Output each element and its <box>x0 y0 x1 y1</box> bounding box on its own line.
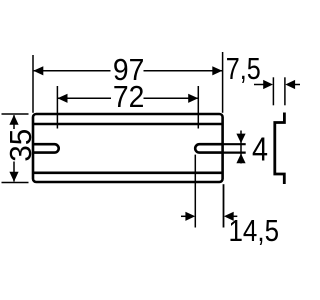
dim 97 / 14.5 right extension line <box>222 52 224 113</box>
dim 35 top extension line <box>2 113 29 115</box>
dim 7.5 right tick <box>284 77 286 105</box>
dim 7.5 left tick <box>272 77 274 105</box>
dim 35 up arrow <box>9 115 18 125</box>
dim 97 left extension line <box>32 55 34 113</box>
dim 72 right extension line <box>197 86 199 129</box>
dim 14.5 left extension line <box>194 155 196 228</box>
dim 14.5 right shaft <box>232 215 237 217</box>
right mounting slot <box>195 144 222 152</box>
dim 4 down arrow <box>236 134 245 144</box>
dim 97 left arrow <box>33 66 43 75</box>
dim 72 left extension line <box>56 86 58 129</box>
dim 72 dimension line <box>58 97 111 99</box>
rail body inner top flange line <box>33 123 223 126</box>
dim 14.5 right-pointing arrow <box>185 212 195 221</box>
dim 4 top extension line <box>223 143 246 145</box>
dim 35 bottom extension line <box>2 182 29 184</box>
dim 4 up arrow <box>236 154 245 164</box>
dim 7.5 dimension line right part <box>292 84 300 86</box>
rail body inner bottom flange line <box>33 172 223 175</box>
rail body front view outline <box>33 114 223 182</box>
dim 97 dimension line <box>34 70 111 72</box>
dim 7.5 left-pointing arrow <box>285 80 295 89</box>
svg-text:7,5: 7,5 <box>226 51 261 86</box>
dim 7.5 dimension line left part <box>254 84 266 86</box>
dim 35 dimension line <box>13 115 15 129</box>
dim 14.5 left-pointing arrow <box>224 212 234 221</box>
svg-text:14,5: 14,5 <box>229 213 280 248</box>
svg-text:4: 4 <box>252 131 268 168</box>
dim 4 bottom extension line <box>223 152 246 154</box>
svg-text:35: 35 <box>3 129 38 162</box>
dim 72 left arrow <box>58 94 68 103</box>
dim 97 right arrow <box>212 66 222 75</box>
dim 14.5 right extension line <box>223 184 225 227</box>
svg-text:72: 72 <box>113 79 144 114</box>
dim 72 right arrow <box>188 94 198 103</box>
dim 35 down arrow <box>9 172 18 182</box>
side profile (rail cross-section depth view) <box>275 113 285 185</box>
left mounting slot <box>33 144 59 152</box>
dim 4 vertical line <box>240 131 242 164</box>
dim 7.5 right-pointing arrow <box>263 80 273 89</box>
dim 14.5 left shaft <box>181 215 187 217</box>
